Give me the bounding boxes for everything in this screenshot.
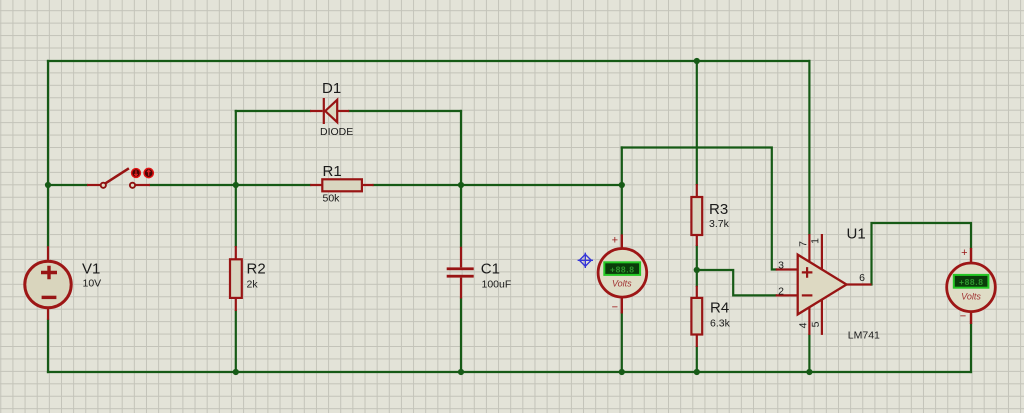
- svg-text:10V: 10V: [83, 278, 102, 290]
- svg-text:1: 1: [809, 238, 821, 244]
- svg-text:3: 3: [778, 260, 784, 272]
- svg-text:6: 6: [859, 272, 865, 284]
- svg-text:+: +: [612, 234, 618, 246]
- svg-text:+88.8: +88.8: [959, 277, 984, 287]
- svg-text:50k: 50k: [323, 193, 341, 205]
- svg-text:Volts: Volts: [612, 279, 632, 289]
- svg-text:R3: R3: [709, 201, 728, 218]
- svg-text:C1: C1: [481, 261, 500, 278]
- svg-text:2: 2: [778, 286, 784, 298]
- svg-text:100uF: 100uF: [482, 279, 512, 291]
- svg-text:4: 4: [797, 322, 809, 328]
- svg-text:+: +: [961, 247, 967, 259]
- svg-text:+88.8: +88.8: [610, 265, 635, 275]
- svg-text:Volts: Volts: [961, 292, 981, 302]
- svg-text:3.7k: 3.7k: [709, 218, 730, 230]
- svg-text:R2: R2: [247, 261, 266, 278]
- svg-text:V1: V1: [82, 261, 100, 278]
- svg-text:LM741: LM741: [848, 330, 880, 342]
- svg-text:6.3k: 6.3k: [710, 318, 731, 330]
- svg-text:D1: D1: [322, 80, 341, 97]
- svg-text:R1: R1: [323, 163, 342, 180]
- svg-text:−: −: [960, 311, 966, 323]
- svg-text:−: −: [612, 301, 618, 313]
- svg-text:5: 5: [810, 321, 822, 327]
- svg-text:DIODE: DIODE: [320, 126, 353, 138]
- svg-text:2k: 2k: [247, 279, 259, 291]
- svg-text:U1: U1: [847, 226, 866, 243]
- svg-text:R4: R4: [710, 300, 729, 317]
- svg-text:7: 7: [797, 241, 809, 247]
